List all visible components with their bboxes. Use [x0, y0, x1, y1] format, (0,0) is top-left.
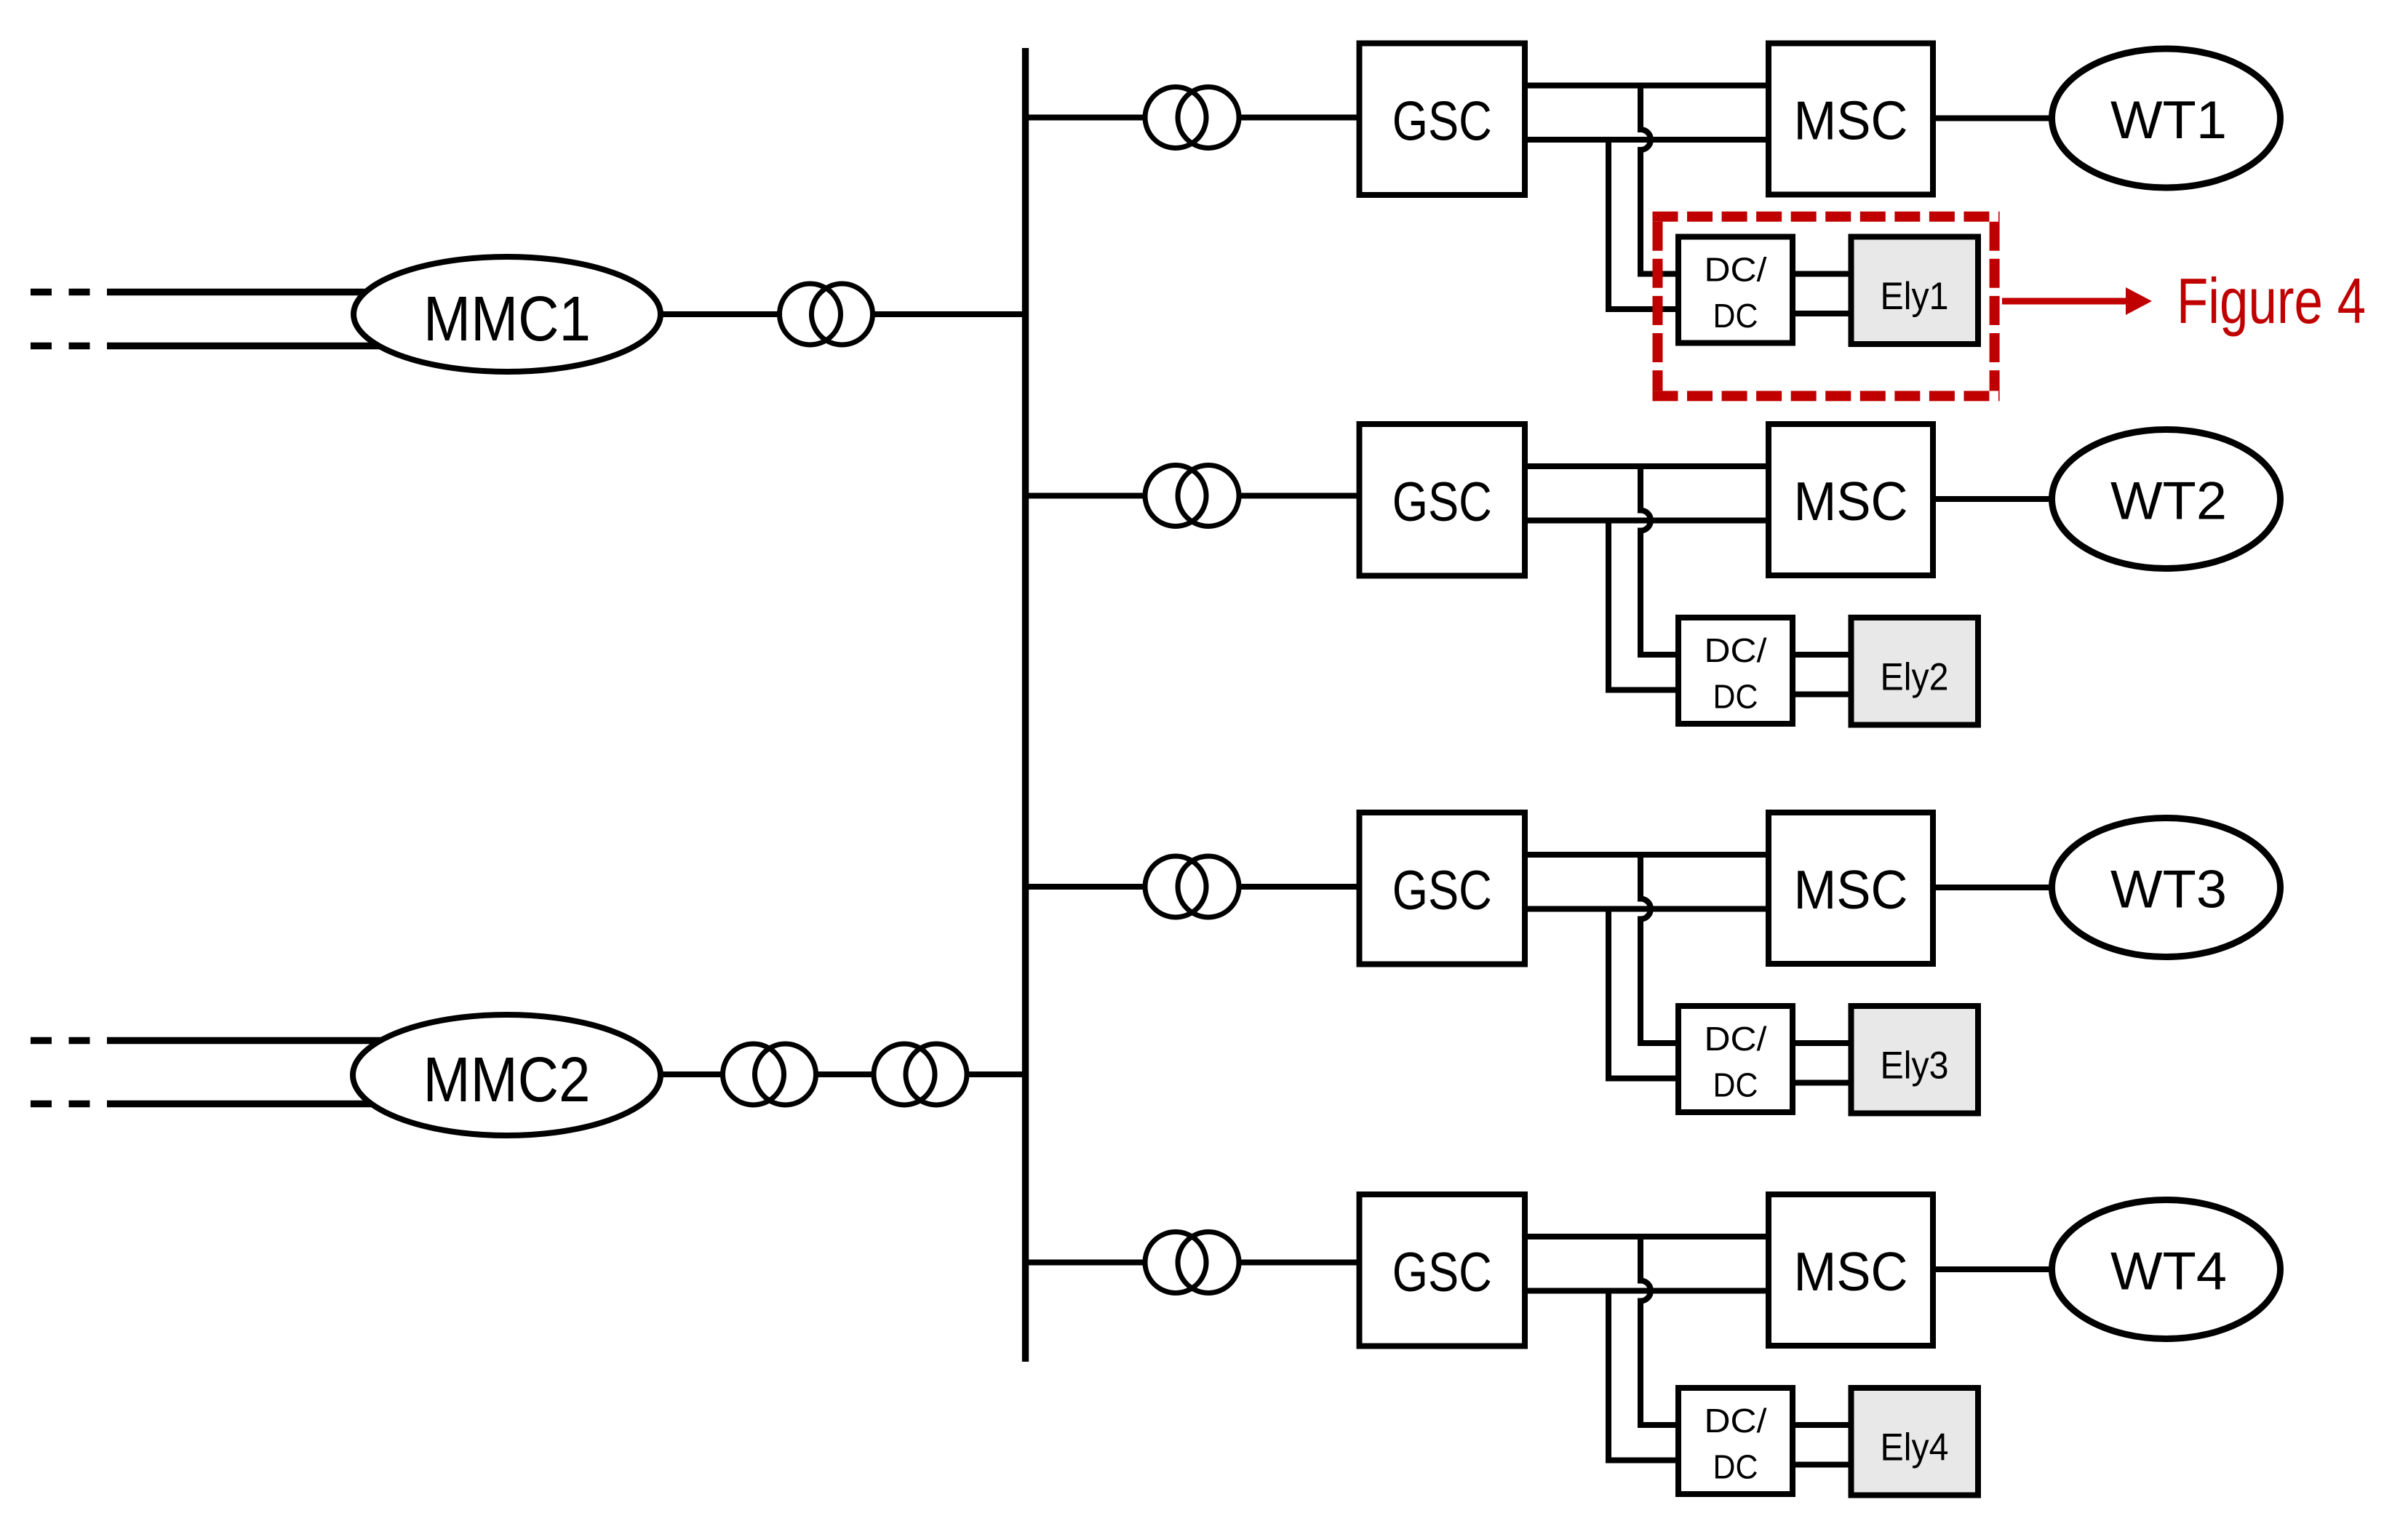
- svg-text:GSC: GSC: [1392, 860, 1492, 922]
- svg-text:WT2: WT2: [2110, 472, 2227, 531]
- svg-text:MMC2: MMC2: [423, 1045, 591, 1115]
- svg-text:DC/: DC/: [1705, 631, 1767, 669]
- svg-text:WT3: WT3: [2110, 861, 2227, 919]
- svg-text:MSC: MSC: [1794, 1241, 1908, 1302]
- svg-text:MMC1: MMC1: [423, 284, 591, 354]
- svg-text:DC/: DC/: [1705, 1020, 1767, 1058]
- svg-text:WT1: WT1: [2110, 91, 2227, 150]
- svg-text:GSC: GSC: [1392, 1242, 1492, 1304]
- svg-text:Ely3: Ely3: [1881, 1045, 1949, 1087]
- svg-text:MSC: MSC: [1794, 90, 1908, 151]
- svg-text:MSC: MSC: [1794, 859, 1908, 920]
- svg-text:DC: DC: [1713, 1066, 1758, 1104]
- svg-text:DC: DC: [1713, 1448, 1758, 1486]
- svg-text:GSC: GSC: [1392, 91, 1492, 153]
- svg-text:DC: DC: [1713, 297, 1758, 335]
- svg-text:MSC: MSC: [1794, 471, 1908, 532]
- svg-text:Figure 4: Figure 4: [2177, 265, 2366, 337]
- svg-text:GSC: GSC: [1392, 471, 1492, 533]
- svg-text:DC/: DC/: [1705, 251, 1767, 289]
- svg-text:DC: DC: [1713, 678, 1758, 716]
- svg-text:Ely4: Ely4: [1881, 1426, 1949, 1469]
- svg-text:DC/: DC/: [1705, 1402, 1767, 1440]
- svg-text:Ely2: Ely2: [1881, 656, 1949, 699]
- svg-text:Ely1: Ely1: [1881, 275, 1949, 318]
- svg-text:WT4: WT4: [2110, 1242, 2227, 1301]
